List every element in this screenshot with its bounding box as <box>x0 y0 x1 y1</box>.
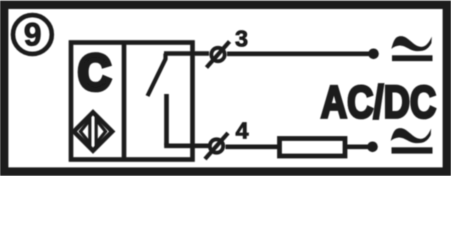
wire: fixed contact to terminal 4 <box>167 143 210 146</box>
svg-text:AC/DC: AC/DC <box>321 76 437 127</box>
junction dot bottom <box>367 142 378 153</box>
switch fixed contact <box>164 94 169 146</box>
wire 4: terminal to load resistor <box>226 145 279 150</box>
diagram number 9 in circle <box>13 15 52 54</box>
sensor body outline <box>71 43 193 160</box>
wire 3 (terminal 3 to supply) <box>227 51 371 56</box>
AC/DC supply symbol top (tilde over bar) <box>391 36 432 61</box>
svg-text:4: 4 <box>235 118 248 144</box>
wire: switch to terminal 3 <box>164 51 209 56</box>
svg-text:9: 9 <box>24 17 42 53</box>
svg-text:C: C <box>78 45 111 100</box>
load resistor <box>280 139 346 157</box>
terminal 4 (slashed circle) <box>205 133 228 159</box>
capacitive sensing element symbol (diamond with arrows) <box>74 112 112 150</box>
terminal 3 (slashed circle) <box>207 42 230 68</box>
svg-text:3: 3 <box>235 26 248 52</box>
sensor type letter C <box>78 45 111 100</box>
switch blade <box>148 54 166 97</box>
AC/DC supply symbol bottom (tilde over bar) <box>391 128 433 153</box>
wire 4: resistor to supply <box>347 145 370 150</box>
junction dot top <box>368 49 379 60</box>
